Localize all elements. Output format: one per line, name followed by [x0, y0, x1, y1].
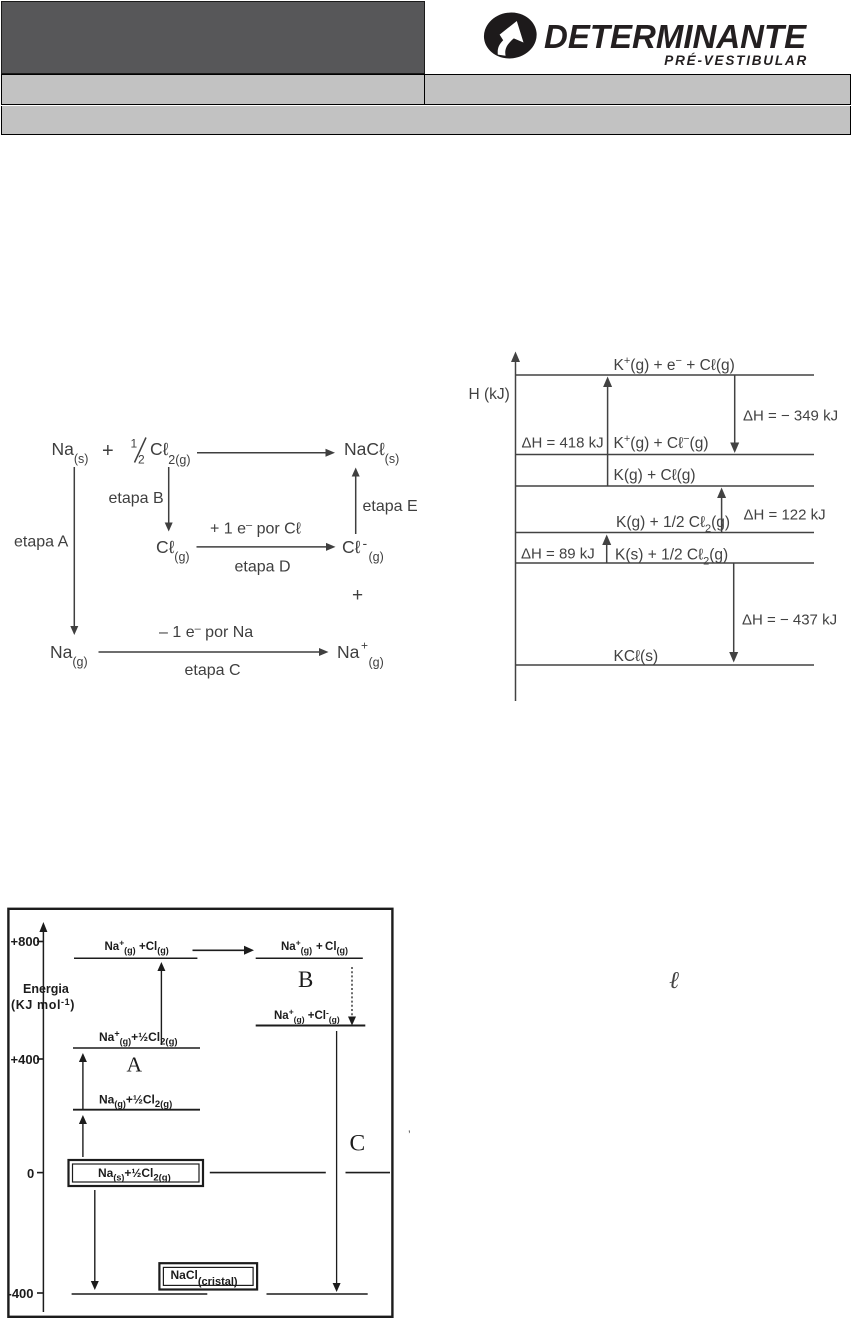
svg-text:ΔH = − 349 kJ: ΔH = − 349 kJ — [743, 408, 838, 425]
arrow C (long down) — [333, 1031, 341, 1292]
level line K(g)+Cl(g) — [516, 485, 815, 487]
svg-text:etapa A: etapa A — [14, 534, 69, 551]
svg-text:+ 1 e– por Cℓ: + 1 e– por Cℓ — [210, 520, 301, 538]
svg-text:Cℓ2(g): Cℓ2(g) — [150, 439, 191, 467]
logo subtitle PRE-VESTIBULAR — [543, 53, 808, 68]
arrow etapa A (long down) — [70, 467, 78, 635]
node Cl-(g) — [342, 535, 384, 564]
label dH = 418 kJ — [522, 435, 604, 452]
svg-text:A: A — [127, 1053, 143, 1077]
arrow etapa E (up) — [352, 468, 360, 535]
level line Na(g)+1/2Cl2(g) — [73, 1109, 200, 1111]
svg-text:ΔH = 122 kJ: ΔH = 122 kJ — [744, 507, 826, 524]
label K+(g) + Cl-(g) — [614, 433, 709, 452]
stray apostrophe dot — [408, 1128, 411, 1142]
plus sign below Cl- — [352, 585, 363, 606]
svg-text:H (kJ): H (kJ) — [469, 386, 510, 403]
arrow dH=418 (up) — [603, 377, 612, 487]
svg-text:Na(g): Na(g) — [50, 642, 88, 669]
svg-text:+: + — [102, 440, 114, 462]
zero level dashes — [210, 1172, 390, 1174]
svg-text:(g): (g) — [369, 550, 384, 564]
svg-text:Na(g)+½Cl2(g): Na(g)+½Cl2(g) — [99, 1093, 172, 1111]
label Na+(g)+1/2Cl2(g) — [99, 1029, 178, 1048]
horizontal arrow between top levels — [193, 946, 255, 955]
level line K(g)+1/2Cl2(g) — [516, 532, 815, 534]
wire arrow top (Na+Cl2 to NaCl) — [197, 449, 335, 457]
node Na(s) — [52, 439, 89, 466]
svg-text:+: + — [361, 639, 368, 653]
plus sign — [102, 440, 114, 462]
label C — [350, 1131, 366, 1157]
svg-text:etapa E: etapa E — [363, 498, 418, 515]
label A — [127, 1053, 143, 1077]
tick +400 — [11, 1052, 45, 1067]
logo word DETERMINANTE — [544, 18, 812, 56]
svg-text:NaCℓ(s): NaCℓ(s) — [344, 439, 399, 466]
svg-text:– 1 e– por Na: – 1 e– por Na — [159, 623, 253, 641]
arrow dH=89 (up) — [602, 535, 611, 564]
outer frame — [8, 909, 392, 1317]
logo circle + arrow — [480, 8, 546, 66]
label Na+(g)+Cl(g) left — [105, 938, 169, 956]
svg-text:C: C — [350, 1131, 366, 1157]
arrow etapa C (right) — [99, 648, 329, 656]
svg-text:(KJ mol-1): (KJ mol-1) — [11, 997, 75, 1012]
label H (kJ) — [469, 386, 510, 403]
svg-text:Na+(g)+ Cl(g): Na+(g)+ Cl(g) — [281, 938, 348, 956]
svg-text:ΔH = 418 kJ: ΔH = 418 kJ — [522, 435, 604, 452]
level line K+(g)+e-+Cl(g) — [516, 374, 815, 376]
svg-text:Energia: Energia — [23, 982, 70, 996]
label Na+(g)+Cl-(g) — [274, 1007, 340, 1025]
svg-text:ΔH = − 437 kJ: ΔH = − 437 kJ — [742, 612, 837, 629]
svg-text:K(g) + Cℓ(g): K(g) + Cℓ(g) — [614, 467, 696, 484]
svg-text:Na+(g) +Cl-(g): Na+(g) +Cl-(g) — [274, 1007, 340, 1025]
svg-text:Na(s): Na(s) — [52, 439, 89, 466]
level line Na+(g)+1/2Cl2(g) — [73, 1047, 200, 1049]
label B — [298, 967, 313, 992]
svg-text:Na: Na — [337, 642, 360, 662]
tick +800 — [11, 934, 45, 949]
label K(s) + 1/2 Cl2(g) — [615, 547, 728, 568]
svg-text:1: 1 — [131, 437, 138, 451]
svg-text:Na+(g)+½Cl2(g): Na+(g)+½Cl2(g) — [99, 1029, 178, 1048]
bottom level line — [72, 1293, 368, 1295]
svg-text:etapa C: etapa C — [185, 662, 241, 679]
label etapa B — [109, 490, 164, 507]
arrow B (dashed down) — [348, 967, 356, 1026]
svg-text:etapa B: etapa B — [109, 490, 164, 507]
energy axis (vertical with up arrow) — [39, 922, 47, 1312]
svg-text:+800: +800 — [11, 934, 40, 949]
arrow dH=122 (up) — [717, 488, 726, 533]
level line Na+(g)+Cl(g) left — [74, 957, 197, 959]
svg-text:(g): (g) — [369, 656, 384, 670]
svg-text:KCℓ(s): KCℓ(s) — [614, 648, 659, 665]
header dark box — [1, 1, 425, 74]
svg-text:B: B — [298, 967, 313, 992]
svg-text:0: 0 — [27, 1166, 34, 1181]
label etapa D — [235, 559, 291, 576]
label K(g) + Cl(g) — [614, 467, 696, 484]
svg-text:K+(g) + e− + Cℓ(g): K+(g) + e− + Cℓ(g) — [614, 355, 735, 374]
svg-text:2: 2 — [138, 453, 145, 467]
label etapa C — [185, 662, 241, 679]
node Na+(g) — [337, 639, 384, 670]
label K(g) + 1/2 Cl2(g) — [616, 514, 730, 535]
svg-text:-: - — [363, 535, 368, 551]
arrow etapa B (down) — [165, 467, 173, 532]
svg-text:etapa D: etapa D — [235, 559, 291, 576]
tick -400 — [8, 1286, 45, 1301]
box NaCl(cristal) — [159, 1263, 257, 1289]
level line K+(g)+Cl-(g) — [516, 454, 815, 456]
svg-text:K+(g) + Cℓ−(g): K+(g) + Cℓ−(g) — [614, 433, 709, 452]
label Na+(g)+Cl(g) right — [281, 938, 348, 956]
box Na(s)+1/2Cl2(g) — [69, 1160, 204, 1186]
arrow up from box to Na(g) level — [79, 1115, 87, 1157]
svg-text:Na(s)+½Cl2(g): Na(s)+½Cl2(g) — [98, 1166, 171, 1184]
label Energia (KJ mol-1) — [11, 982, 75, 1012]
label dH = -349 kJ — [743, 408, 838, 425]
svg-text:Cℓ(g): Cℓ(g) — [156, 537, 190, 564]
svg-text:K(s) + 1/2 Cℓ2(g): K(s) + 1/2 Cℓ2(g) — [615, 547, 728, 568]
svg-text:Cℓ: Cℓ — [342, 537, 361, 557]
header row 3 (gray band) — [1, 106, 851, 135]
label etapa A — [14, 534, 69, 551]
lone script ell — [669, 968, 679, 995]
level line Na+(g)+Cl(g) right — [256, 957, 363, 959]
label etapa E — [363, 498, 418, 515]
node 1/2 Cl2(g) — [131, 437, 191, 468]
arrow dH=-437 (down) — [729, 563, 738, 663]
tick 0 — [27, 1166, 44, 1181]
arrow up between mid levels — [79, 1053, 87, 1110]
label K+(g) + e- + Cl(g) — [614, 355, 735, 374]
label + 1 e- por Cl — [210, 520, 301, 538]
arrow etapa D (right) — [197, 543, 336, 551]
label dH = 122 kJ — [744, 507, 826, 524]
node NaCl(s) — [344, 439, 399, 466]
arrow down from box to bottom level — [91, 1190, 99, 1290]
label dH = -437 kJ — [742, 612, 837, 629]
label KCl(s) — [614, 648, 659, 665]
svg-text:+400: +400 — [11, 1052, 40, 1067]
level line KCl(s) — [516, 664, 815, 666]
arrow up from Na+1/2Cl2 level to top-left level — [157, 962, 165, 1045]
axis H (vertical with up arrow) — [511, 352, 520, 702]
arrow dH=-349 (down) — [730, 375, 739, 453]
header row 2 (two gray cells) — [1, 74, 424, 105]
svg-text:Na+(g)+Cl(g): Na+(g)+Cl(g) — [105, 938, 169, 956]
svg-text:ΔH = 89 kJ: ΔH = 89 kJ — [521, 546, 595, 563]
node Na(g) — [50, 642, 88, 669]
node Cl(g) — [156, 537, 190, 564]
label - 1 e- por Na — [159, 623, 253, 641]
level line Na+(g)+Cl-(g) — [256, 1025, 366, 1027]
level line K(s)+1/2Cl2(g) — [516, 562, 815, 564]
svg-text:-400: -400 — [8, 1286, 34, 1301]
label dH = 89 kJ — [521, 546, 595, 563]
svg-text:+: + — [352, 585, 363, 606]
label Na(g)+1/2Cl2(g) — [99, 1093, 172, 1111]
